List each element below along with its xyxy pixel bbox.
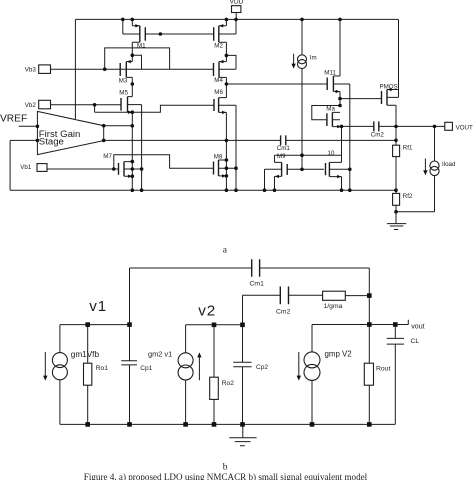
svg-text:Stage: Stage <box>39 136 64 147</box>
svg-text:Rf1: Rf1 <box>403 145 413 152</box>
svg-text:M5: M5 <box>119 90 128 97</box>
svg-text:M2: M2 <box>214 43 223 50</box>
svg-text:M1: M1 <box>137 43 146 50</box>
svg-text:Cp1: Cp1 <box>140 365 152 372</box>
svg-text:Cm1: Cm1 <box>250 280 265 287</box>
svg-text:M9: M9 <box>277 153 286 160</box>
svg-text:VOUT: VOUT <box>456 125 473 132</box>
svg-text:Figure 4. a) proposed LDO usin: Figure 4. a) proposed LDO using NMCACR b… <box>84 472 368 480</box>
svg-text:Vb3: Vb3 <box>25 66 37 73</box>
svg-text:M6: M6 <box>214 89 223 96</box>
svg-text:M4: M4 <box>214 77 223 84</box>
svg-text:Vb2: Vb2 <box>25 102 37 109</box>
svg-text:M8: M8 <box>214 154 223 161</box>
svg-text:Vb1: Vb1 <box>20 164 32 171</box>
svg-text:Iload: Iload <box>442 161 456 168</box>
svg-text:Ma: Ma <box>326 105 335 112</box>
svg-text:1/gma: 1/gma <box>324 303 343 310</box>
svg-text:Ro2: Ro2 <box>222 380 234 387</box>
svg-text:v2: v2 <box>198 302 216 319</box>
svg-text:gm1Vfb: gm1Vfb <box>71 350 100 359</box>
svg-text:vout: vout <box>411 323 424 330</box>
svg-text:Rf2: Rf2 <box>403 193 413 200</box>
svg-text:CL: CL <box>411 338 420 345</box>
svg-text:M11: M11 <box>324 69 336 76</box>
svg-text:Rout: Rout <box>376 366 390 373</box>
svg-text:VREF: VREF <box>0 114 27 125</box>
svg-text:v1: v1 <box>89 298 107 315</box>
svg-text:Ro1: Ro1 <box>96 365 108 372</box>
svg-text:M7: M7 <box>103 153 112 160</box>
svg-text:gm2 v1: gm2 v1 <box>148 350 172 359</box>
svg-text:VDD: VDD <box>230 0 244 6</box>
svg-text:Cp2: Cp2 <box>256 364 268 371</box>
svg-text:gmp V2: gmp V2 <box>325 349 352 358</box>
svg-text:M3: M3 <box>119 77 128 84</box>
svg-text:Cm1: Cm1 <box>277 145 291 152</box>
svg-text:10: 10 <box>328 150 335 157</box>
svg-text:PMOS: PMOS <box>380 83 398 90</box>
svg-text:Im: Im <box>310 55 317 62</box>
svg-text:Cm2: Cm2 <box>371 131 385 138</box>
svg-text:Cm2: Cm2 <box>276 308 291 315</box>
